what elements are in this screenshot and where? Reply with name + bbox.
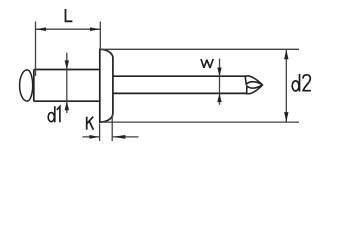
rivet head (dome head, flat left face, rounded right) (100, 49, 113, 122)
dimension L left arrowhead (36, 27, 46, 31)
label d1 (48, 106, 60, 122)
mandrel tip lower petal (247, 85, 263, 94)
dimension K left line segment (83, 136, 100, 138)
label w (201, 59, 213, 68)
dimension K left arrowhead (89, 135, 99, 139)
rivet body (cylinder outline) (34, 70, 100, 102)
dimension d2 top arrowhead (284, 50, 288, 60)
dimension L extension line left (35, 22, 37, 77)
dimension w line (vertical through mandrel) (219, 59, 221, 105)
dimension w bottom arrowhead (217, 93, 221, 102)
dimension K extension line left (99, 124, 101, 142)
label L (66, 9, 73, 21)
dimension L right arrowhead (90, 27, 100, 31)
label d2 (292, 74, 311, 92)
dimension d2 extension line top (100, 48, 299, 50)
dimension d1 top arrowhead (65, 60, 69, 69)
dimension K extension line right (111, 115, 113, 142)
dimension L extension line right (99, 22, 101, 50)
dimension K right arrowhead (112, 135, 125, 139)
dimension d1 line (vertical through body) (66, 53, 68, 113)
mandrel tip upper petal (245, 76, 262, 85)
dimension K right line segment (113, 136, 139, 138)
dimension L line (36, 28, 100, 30)
dimension w top arrowhead (217, 68, 221, 77)
dimension d2 bottom arrowhead (284, 112, 288, 122)
mandrel stem (two horizontal lines) (113, 76, 247, 93)
dimension d1 bottom arrowhead (65, 101, 69, 110)
dimension d2 extension line bottom (101, 121, 299, 123)
mandrel ball end (rounded end cap at left of rivet body) (20, 70, 33, 101)
dimension d2 line (285, 50, 287, 122)
label K (87, 117, 94, 130)
